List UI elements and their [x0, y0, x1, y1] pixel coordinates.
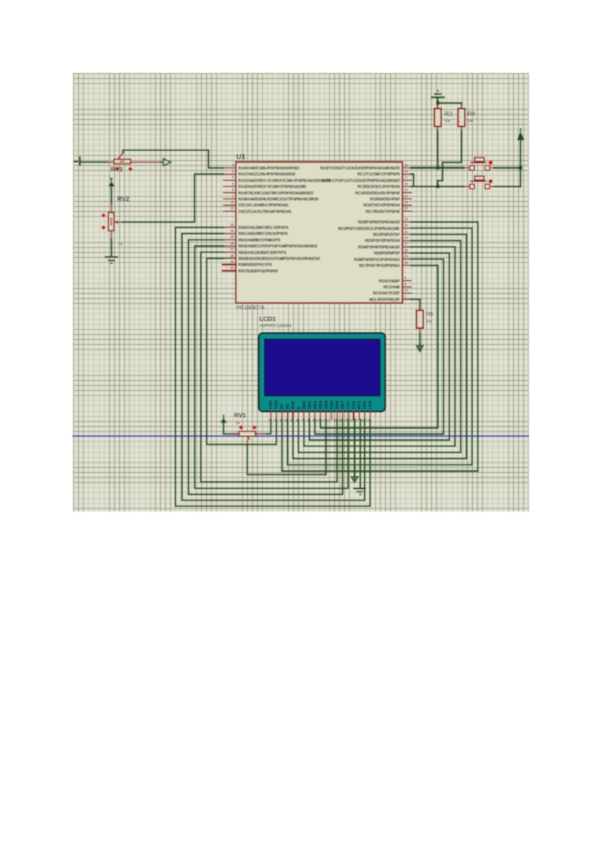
- U1 right pin 29 (RD6/PSP6/P1C): [354, 255, 411, 262]
- wire RD5-LCD8: [309, 253, 449, 440]
- svg-text:19: 19: [366, 419, 370, 423]
- svg-text:1k: 1k: [236, 420, 240, 425]
- LCD1 pin 8 (DB1): [307, 400, 312, 423]
- power arrow (RV2): [108, 179, 115, 204]
- ground (below LCD): [353, 489, 366, 495]
- push button BTN1: [464, 158, 494, 171]
- svg-text:RA3/AN3/VREF+/C1IN+/PSP0/AN10/: RA3/AN3/VREF+/C1IN+/PSP0/AN10/K: [238, 184, 306, 189]
- svg-text:25: 25: [404, 201, 408, 205]
- wire RD3-LCD6: [298, 241, 460, 453]
- svg-text:RE1/AN6: RE1/AN6: [383, 285, 400, 290]
- ground arrow (below LCD): [351, 477, 357, 483]
- LCD1 screen: [265, 339, 380, 395]
- svg-text:RS: RS: [285, 403, 290, 409]
- svg-text:R2: R2: [444, 111, 453, 118]
- wire ground rail to R2/R4 tops: [438, 102, 462, 105]
- svg-text:13: 13: [333, 419, 337, 423]
- svg-text:R5: R5: [426, 312, 433, 318]
- wire RB3-LCD15: [195, 246, 348, 488]
- LCD1 pin 4 (RS): [285, 403, 290, 422]
- reference label U1: [236, 152, 245, 161]
- svg-text:RD0/PSP0/PSP0/AN10/: RD0/PSP0/PSP0/AN10/: [358, 220, 401, 225]
- svg-text:18: 18: [404, 182, 408, 186]
- U1 right pin 16 (RC1/T1OSI/CCP2): [358, 170, 412, 177]
- power arrow (RV1): [220, 415, 227, 433]
- U1 right pin 9 (RE1/AN6): [383, 282, 411, 289]
- svg-text:DB5: DB5: [329, 400, 334, 409]
- svg-text:E: E: [296, 406, 301, 409]
- svg-text:27: 27: [404, 242, 408, 246]
- svg-text:7: 7: [301, 419, 303, 423]
- svg-text:36: 36: [230, 241, 234, 245]
- svg-text:AMPIRE128X64: AMPIRE128X64: [259, 323, 292, 328]
- U1 right pin 27 (RD4/PSP4): [358, 242, 411, 249]
- ground arrow (R5): [417, 346, 423, 352]
- microcontroller U1 (PIC16F877A) body: [236, 162, 403, 303]
- output arrow terminal: [160, 159, 171, 166]
- wire U1 RC3 to button 2: [411, 186, 464, 188]
- red actuator dot (BTN1): [489, 161, 493, 165]
- wire U1 RC0 to button 1: [411, 167, 464, 169]
- svg-text:1: 1: [404, 295, 406, 299]
- wire button2 to VCC rail: [494, 186, 520, 188]
- svg-text:RD1/PSP1/SDO/SCL/PSP0/AN10/K: RD1/PSP1/SDO/SCL/PSP0/AN10/K: [338, 226, 400, 231]
- svg-text:14: 14: [338, 419, 342, 423]
- svg-text:5: 5: [290, 419, 292, 423]
- wire RD0-LCD3: [282, 222, 478, 471]
- LCD1 pin 14 (DB7): [338, 400, 345, 423]
- svg-text:RC1/T1OSI/CCP2/PSP0: RC1/T1OSI/CCP2/PSP0: [358, 172, 401, 177]
- LCD1 pin 12 (DB5): [327, 400, 334, 423]
- svg-text:RE2/AN7/CS/P: RE2/AN7/CS/P: [373, 291, 400, 296]
- svg-text:33: 33: [230, 223, 234, 227]
- svg-text:13: 13: [230, 201, 234, 205]
- svg-text:12: 12: [327, 419, 331, 423]
- svg-text:DB1: DB1: [307, 400, 312, 409]
- potentiometer RV2: [108, 204, 122, 240]
- wire RD7-LCD10: [320, 265, 437, 428]
- junction VCC rail/button1: [519, 166, 522, 169]
- svg-text:21: 21: [404, 230, 408, 234]
- svg-text:9: 9: [404, 282, 406, 286]
- U1 left pin 37 (RB4/AN11/KBI0/CSSPP): [224, 248, 287, 255]
- U1 right pin 15 (RC0/T1OSO/T13CKI/UOE): [320, 163, 411, 170]
- U1 left pin 34 (RB1/AN10/INT1/SCK): [224, 229, 288, 236]
- svg-text:RB0/AN12/INT0/FLT0/PSP0: RB0/AN12/INT0/FLT0/PSP0: [238, 225, 289, 230]
- svg-text:VSS: VSS: [268, 401, 273, 410]
- wire LCD RST to ground: [359, 419, 361, 487]
- label R5: [426, 312, 433, 318]
- wire RB2-LCD14: [189, 240, 343, 495]
- svg-text:R4: R4: [467, 111, 476, 118]
- U1 right pin 18 (RC3/SCK/SCL): [358, 182, 412, 189]
- svg-text:MCLR/VPP/RE3/P: MCLR/VPP/RE3/P: [369, 297, 400, 302]
- svg-text:24: 24: [404, 194, 408, 198]
- U1 left pin 36 (RB3/AN9/CCP2/VPO/PGM): [224, 241, 319, 248]
- U1 right pin 26 (RC7/RX/DT): [366, 207, 412, 214]
- svg-text:DB0: DB0: [301, 400, 306, 409]
- ground (top, above R2): [431, 91, 445, 102]
- wire RB0-LCD19: [175, 227, 370, 506]
- U1 left pin 6 (RA4/T0CKI/C1OUT/RCV): [224, 188, 315, 195]
- wire R4 to button row 2: [438, 132, 462, 187]
- RV3 handle dots: [115, 167, 133, 172]
- U1 left pin 39 (RB6/KBI2/PGC): [223, 260, 272, 267]
- svg-text:RD3/PSP3/PSP0/AN: RD3/PSP3/PSP0/AN: [365, 238, 400, 243]
- junction at R2 top: [436, 101, 439, 104]
- svg-text:RE0/AN5/P: RE0/AN5/P: [379, 278, 400, 283]
- LCD1 pin 10 (DB3): [316, 400, 323, 423]
- svg-text:RC2/CCP1/P1A/T1G/UOE/PSP0/AN10: RC2/CCP1/P1A/T1G/UOE/PSP0/AN10/KBI2/: [321, 178, 401, 183]
- wire RD2-LCD5: [293, 234, 467, 458]
- svg-text:15: 15: [404, 163, 408, 167]
- svg-text:LCD1: LCD1: [259, 316, 276, 323]
- wire R5 to ground arrow: [419, 334, 421, 346]
- svg-text:10k: 10k: [444, 119, 450, 123]
- U1 right pin 10 (RE2/AN7/CS): [373, 289, 411, 296]
- svg-text:1k: 1k: [118, 241, 122, 246]
- U1 right pin 8 (RE0/AN5): [379, 276, 411, 283]
- value label 10k (R5): [426, 319, 432, 323]
- part label AMPIRE128X64: [259, 323, 292, 328]
- svg-text:RV1: RV1: [234, 413, 246, 420]
- svg-text:DB2: DB2: [312, 400, 317, 409]
- value label 10k (R4): [467, 119, 473, 123]
- svg-text:16: 16: [404, 170, 408, 174]
- svg-text:RC4/SDI/SDA/D-/PSP0/: RC4/SDI/SDA/D-/PSP0/: [355, 190, 401, 195]
- svg-text:8: 8: [404, 276, 406, 280]
- svg-text:7: 7: [232, 194, 234, 198]
- svg-text:10k: 10k: [426, 319, 432, 323]
- RV1 handle dots: [239, 425, 257, 430]
- svg-text:6: 6: [296, 419, 298, 423]
- svg-text:39: 39: [230, 260, 234, 264]
- svg-text:34: 34: [230, 229, 234, 233]
- U1 left pin 3 (RA1/AN1/C2IN-): [224, 170, 296, 177]
- U1 right pin 24 (RC5/SDO/D+): [370, 194, 411, 201]
- ground (RV2): [105, 257, 118, 263]
- svg-text:RC6/TX/CK/PSP0/AN: RC6/TX/CK/PSP0/AN: [363, 203, 400, 208]
- svg-text:OSC2/CLKOUT/RA6/PSP0/AN1: OSC2/CLKOUT/RA6/PSP0/AN1: [238, 209, 292, 214]
- U1 right pin 17 (RC2/CCP1/P1A/T1G/UOE): [321, 176, 411, 183]
- svg-text:RB2/AN8/INT2/VMO/PS: RB2/AN8/INT2/VMO/PS: [238, 237, 280, 242]
- svg-text:RA4/T0CKI/C1OUT/RCV/PSP0/AN10/: RA4/T0CKI/C1OUT/RCV/PSP0/AN10/KBI2/: [238, 190, 314, 195]
- svg-text:4: 4: [232, 176, 234, 180]
- svg-text:35: 35: [230, 235, 234, 239]
- U1 right pin 19 (RD0/PSP0): [358, 217, 411, 224]
- LCD1 pin 6 (E): [296, 406, 301, 422]
- svg-text:RD5/PSP5/PSP: RD5/PSP5/PSP: [374, 251, 400, 256]
- svg-text:U1: U1: [236, 152, 245, 161]
- svg-text:2: 2: [274, 419, 276, 423]
- svg-text:10: 10: [404, 289, 408, 293]
- svg-text:20: 20: [404, 224, 408, 228]
- label LCD1: [259, 316, 276, 323]
- label RV2: [117, 196, 129, 203]
- U1 right pin 21 (RD2/PSP2): [373, 230, 411, 237]
- U1 left pin 4 (RA2/AN2/VREF-/CVREF/C2IN+): [224, 176, 331, 183]
- svg-text:3: 3: [232, 170, 234, 174]
- wire LCD CS2 to ground arrow: [354, 419, 356, 477]
- svg-text:22: 22: [404, 236, 408, 240]
- value label 10k (R2): [444, 119, 450, 123]
- U1 left pin 40 (RB7/KBI3/PGD): [223, 266, 279, 273]
- svg-text:R/W: R/W: [290, 400, 295, 409]
- label R4: [467, 111, 476, 118]
- svg-text:RA2/AN2/VREF-/CVREF/C2IN+/PSP0: RA2/AN2/VREF-/CVREF/C2IN+/PSP0/AN10/KBI2…: [238, 178, 330, 183]
- svg-text:CS1: CS1: [345, 400, 350, 409]
- U1 left pin 35 (RB2/AN8/INT2/VMO): [224, 235, 281, 242]
- value label 1k (RV1): [236, 420, 240, 425]
- junction R2/row1: [436, 166, 439, 169]
- svg-text:17: 17: [404, 176, 408, 180]
- LCD1 pin 18 (VEE): [360, 401, 367, 423]
- svg-text:RV2: RV2: [117, 196, 129, 203]
- svg-text:29: 29: [404, 255, 408, 259]
- LCD1 pin 9 (DB2): [312, 400, 317, 423]
- svg-text:RB3/AN9/CCP2/VPO/PGM/PSP0/AN10: RB3/AN9/CCP2/VPO/PGM/PSP0/AN10/KBI2/: [238, 244, 318, 249]
- wire RV2 wiper to U1 RA1: [122, 174, 223, 222]
- svg-text:1: 1: [268, 419, 270, 423]
- svg-text:5: 5: [232, 182, 234, 186]
- svg-text:RD7/PSP7/P1D/PSP0/A: RD7/PSP7/P1D/PSP0/A: [359, 263, 400, 268]
- wire RV3 wiper to U1 RA0: [123, 150, 224, 168]
- svg-text:RA5/AN4/SS/HLVDIN/C2OUT/PSP0/A: RA5/AN4/SS/HLVDIN/C2OUT/PSP0/AN10/KBI: [238, 197, 318, 202]
- part label PIC16F877A: [236, 306, 265, 312]
- svg-text:RB4/AN11/KBI0/CSSPP/PS: RB4/AN11/KBI0/CSSPP/PS: [238, 250, 286, 255]
- LCD1 pin 17 (RST): [355, 400, 362, 422]
- LCD1 pin 5 (R/W): [290, 400, 295, 423]
- svg-text:RA0/AN0/C1IN-/PSP0/AN10/KBI2: RA0/AN0/C1IN-/PSP0/AN10/KBI2: [238, 166, 300, 171]
- svg-text:DB6: DB6: [334, 400, 339, 409]
- LCD1 pin 15 (CS1): [344, 400, 351, 422]
- svg-text:RC5/SDO/D+/PSP: RC5/SDO/D+/PSP: [370, 197, 400, 202]
- wire U1 pin1 to R5: [411, 299, 420, 310]
- U1 right pin 28 (RD5/PSP5): [374, 248, 411, 255]
- U1 right pin 1 (MCLR/VPP/RE3): [369, 295, 411, 302]
- RV2 handle dots: [101, 213, 106, 230]
- svg-text:15: 15: [344, 419, 348, 423]
- U1 left pin 33 (RB0/AN12/INT0/FLT0): [224, 223, 289, 230]
- value label 1k (RV3): [109, 176, 113, 181]
- label R2: [444, 111, 453, 118]
- svg-text:RB6/KBI2/PGC/PS: RB6/KBI2/PGC/PS: [238, 262, 272, 267]
- wire R2 to button row 1: [437, 132, 439, 168]
- resistor R4: [458, 104, 465, 131]
- svg-text:RD4/PSP4/PSP0/AN10/: RD4/PSP4/PSP0/AN10/: [358, 244, 401, 249]
- wire terminal to RV3: [81, 161, 108, 163]
- label RV1: [234, 413, 246, 420]
- svg-text:OSC1/CLKIN/RA7/PSP0/AN1: OSC1/CLKIN/RA7/PSP0/AN1: [238, 203, 289, 208]
- svg-text:30: 30: [404, 261, 408, 265]
- svg-text:9: 9: [312, 419, 314, 423]
- U1 left pin 7 (RA5/AN4/SS/HLVDIN/C2OUT): [224, 194, 319, 201]
- wire RD1-LCD4: [287, 228, 472, 465]
- LCD1 pin 7 (DB0): [301, 400, 306, 423]
- LCD1 pin 3 (V0): [279, 403, 284, 422]
- LCD1 pin 19 (LED): [366, 401, 373, 423]
- U1 right pin 30 (RD7/PSP7/P1D): [359, 261, 411, 268]
- svg-text:10: 10: [316, 419, 320, 423]
- U1 left pin 14 (OSC2/CLKOUT/RA6): [224, 207, 292, 214]
- svg-text:CS2: CS2: [351, 400, 356, 409]
- wire RV1 right to LCD V0: [267, 419, 271, 434]
- LCD1 pin 13 (DB6): [333, 400, 340, 423]
- value label 1k (RV2): [118, 241, 122, 246]
- svg-text:40: 40: [230, 266, 234, 270]
- U1 right pin 20 (RD1/PSP1/SDO/SCL): [338, 224, 411, 231]
- svg-text:PIC16F877A: PIC16F877A: [236, 306, 265, 312]
- label RV3: [111, 167, 123, 174]
- svg-text:38: 38: [230, 254, 234, 258]
- potentiometer RV1: [233, 431, 267, 446]
- svg-text:RA1/AN1/C2IN-/PSP0/AN10/KB: RA1/AN1/C2IN-/PSP0/AN10/KB: [238, 172, 295, 177]
- LCD1 pin 16 (CS2): [349, 400, 356, 422]
- LCD1 pin 2 (VDD): [274, 400, 279, 422]
- wire RV1 wiper to LCD pin 12: [247, 419, 326, 474]
- svg-text:11: 11: [322, 419, 326, 423]
- svg-text:3: 3: [279, 419, 281, 423]
- red actuator dot (BTN2): [489, 179, 493, 183]
- wire RB5-LCD2: [207, 258, 277, 444]
- U1 left pin 2 (RA0/AN0/C1IN-): [224, 163, 300, 170]
- svg-text:37: 37: [230, 248, 234, 252]
- svg-text:14: 14: [230, 207, 234, 211]
- svg-text:RC7/RX/DT/PSP0/: RC7/RX/DT/PSP0/: [366, 209, 401, 214]
- svg-text:2: 2: [232, 163, 234, 167]
- resistor R2: [434, 104, 441, 131]
- wire RV2 to ground: [111, 239, 113, 256]
- input terminal (left): [74, 157, 80, 165]
- svg-text:DB3: DB3: [318, 400, 323, 409]
- svg-text:6: 6: [232, 188, 234, 192]
- LCD1 pin 11 (DB4): [322, 400, 329, 423]
- svg-text:28: 28: [404, 248, 408, 252]
- svg-text:RC0/T1OSO/T13CKI/UOE/PSP0/AN10: RC0/T1OSO/T13CKI/UOE/PSP0/AN10/KBI2/S: [320, 166, 400, 171]
- wire RB4-LCD13: [201, 252, 337, 482]
- wire button1 to VCC rail: [494, 167, 520, 169]
- svg-text:19: 19: [404, 217, 408, 221]
- LCD1 body: [259, 333, 386, 412]
- svg-text:RB7/KBI3/PGD/PSP0/: RB7/KBI3/PGD/PSP0/: [238, 268, 278, 273]
- svg-text:4: 4: [285, 419, 287, 423]
- svg-text:DB7: DB7: [340, 400, 345, 409]
- svg-text:RST: RST: [357, 400, 362, 409]
- LCD1 pin 1 (VSS): [268, 401, 273, 423]
- svg-text:LED: LED: [368, 401, 373, 410]
- svg-text:RC3/SCK/SCL/PSP0/AN: RC3/SCK/SCL/PSP0/AN: [358, 184, 400, 189]
- svg-text:VEE: VEE: [362, 401, 367, 410]
- resistor R5: [416, 306, 423, 334]
- svg-text:RB1/AN10/INT1/SCK/PSP0: RB1/AN10/INT1/SCK/PSP0: [238, 231, 288, 236]
- wire RD4-LCD7: [304, 247, 455, 446]
- blue divider line: [73, 435, 529, 437]
- U1 left pin 5 (RA3/AN3/VREF+/C1IN+): [224, 182, 307, 189]
- svg-text:10k: 10k: [467, 119, 473, 123]
- U1 left pin 38 (RB5/KBI1/SDI/SDA/PGM): [224, 254, 321, 261]
- U1 right pin 22 (RD3/PSP3): [365, 236, 411, 243]
- wire RD6-LCD9: [315, 259, 444, 434]
- U1 left pin 13 (OSC1/CLKIN/RA7): [224, 201, 289, 208]
- push button BTN2: [464, 176, 494, 189]
- svg-text:16: 16: [349, 419, 353, 423]
- power arrow (VCC, top right): [517, 129, 525, 187]
- wire link RC1 to RC3: [411, 174, 413, 186]
- wire power arrow to RV1: [224, 433, 239, 435]
- U1 right pin 25 (RC6/TX/CK): [363, 201, 411, 208]
- svg-text:8: 8: [307, 419, 309, 423]
- potentiometer RV3: [107, 153, 163, 164]
- svg-text:DB4: DB4: [323, 400, 328, 409]
- svg-text:V0: V0: [279, 403, 284, 409]
- svg-text:VDD: VDD: [274, 400, 279, 409]
- wire RB1-LCD18: [182, 234, 365, 501]
- svg-text:RD6/PSP6/P1C/PSP0/AN1: RD6/PSP6/P1C/PSP0/AN1: [354, 257, 400, 262]
- junction row2: [436, 185, 439, 188]
- svg-text:26: 26: [404, 207, 408, 211]
- U1 right pin 23 (RC4/SDI/SDA/D-): [355, 188, 411, 195]
- svg-text:RD2/PSP2/PSP: RD2/PSP2/PSP: [373, 232, 400, 237]
- svg-text:RB5/KBI1/SDI/SDA/PGM/PSP0/AN10: RB5/KBI1/SDI/SDA/PGM/PSP0/AN10/KBI2/SE: [238, 256, 320, 261]
- svg-text:23: 23: [404, 188, 408, 192]
